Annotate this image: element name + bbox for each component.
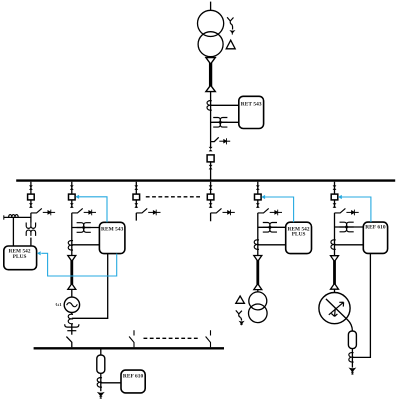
wire bbox=[71, 324, 73, 335]
disconnector F4 bbox=[211, 208, 235, 215]
voltage transformer F5 bbox=[263, 223, 277, 233]
circuit breaker F3 bbox=[133, 194, 140, 200]
earth electrode machine neutral bbox=[349, 368, 357, 375]
withdrawable contact upper (incoming breaker) bbox=[209, 147, 213, 152]
generator G1 bbox=[64, 297, 79, 312]
T2 wye winding symbol bbox=[236, 310, 242, 317]
cable termination lower (T1 feeder) bbox=[206, 85, 215, 91]
svg-text:REF 610: REF 610 bbox=[123, 374, 144, 380]
cable run T1 to switchgear bbox=[209, 63, 212, 86]
T1 delta winding symbol bbox=[226, 40, 235, 49]
wire bbox=[210, 92, 212, 142]
current transformer F2 bbox=[68, 241, 73, 251]
withdrawable contact lower F1 bbox=[29, 203, 33, 208]
current transformer F5 bbox=[254, 240, 259, 250]
circuit breaker F2 bbox=[69, 194, 76, 200]
disconnector F5 bbox=[258, 208, 282, 215]
earthing resistor feeder wire bbox=[100, 349, 102, 355]
wire CT F2 to REM 543 bbox=[72, 244, 100, 246]
T2 delta winding symbol bbox=[236, 296, 245, 303]
neutral earthing resistor lower bbox=[97, 355, 105, 373]
generator earthing device bbox=[65, 324, 79, 331]
circuit breaker F1 bbox=[28, 194, 35, 200]
wire VT F6 to REF 610 bbox=[335, 226, 364, 228]
cyan interlink REM 543 to REM 542 PLUS bbox=[37, 251, 117, 276]
cyan control REM 543 to breaker F2 bbox=[75, 195, 107, 223]
transformer T1 primary winding bbox=[198, 10, 224, 36]
cable run F6 to machine bbox=[333, 261, 336, 285]
wire VT F1 to REM 542 PLUS bbox=[30, 238, 32, 247]
wire bbox=[100, 373, 102, 391]
relay RET 543 bbox=[239, 96, 264, 128]
busbar lower bbox=[34, 347, 224, 349]
transformer T2 primary winding bbox=[249, 292, 267, 310]
cable run F2 to generator bbox=[70, 261, 73, 285]
transformer T1 secondary winding bbox=[198, 32, 223, 57]
withdrawable contact lower F3 bbox=[134, 203, 138, 208]
withdrawable contact lower (incoming breaker) bbox=[209, 165, 213, 170]
disconnector incoming (with truck arrow) bbox=[211, 137, 231, 144]
svg-text:PLUS: PLUS bbox=[13, 254, 27, 260]
withdrawable contact upper F3 bbox=[134, 185, 138, 190]
earth electrode resistor feeder bbox=[97, 392, 105, 399]
withdrawable contact upper F2 bbox=[70, 185, 74, 190]
svg-text:REM 543: REM 543 bbox=[101, 226, 124, 232]
relay REF 610 (bay F6) bbox=[363, 222, 387, 253]
relay REM 542 PLUS (bay F5) bbox=[286, 222, 312, 253]
wire bbox=[71, 313, 73, 315]
withdrawable contact upper F6 bbox=[333, 185, 337, 190]
circuit breaker F6 bbox=[331, 194, 338, 200]
cable termination upper (T1 feeder) bbox=[206, 58, 215, 64]
wire CT1 to RET 543 bbox=[211, 104, 239, 106]
bay F4 vertical wire bbox=[210, 182, 212, 221]
wire bbox=[257, 290, 259, 292]
current transformer generator bbox=[68, 314, 73, 324]
T2 neutral earthing arrow bbox=[239, 318, 245, 326]
cable termination upper F2 bbox=[68, 256, 76, 262]
wire CT F6 to REF 610 bbox=[335, 244, 364, 246]
circuit breaker F4 bbox=[207, 194, 214, 200]
relay REM 543 bbox=[99, 222, 125, 253]
voltage transformer VT1 (incoming) bbox=[213, 118, 227, 128]
voltage transformer F6 bbox=[340, 222, 354, 232]
T1 wye winding symbol bbox=[227, 17, 233, 25]
cyan control REM 542 PLUS to breaker F5 bbox=[261, 195, 293, 222]
wire branch F1 cable CT bbox=[4, 216, 31, 218]
withdrawable contact lower F2 bbox=[70, 203, 74, 208]
bay F3 vertical wire bbox=[135, 182, 137, 221]
wire bbox=[210, 142, 212, 148]
rotating machine M1 bbox=[319, 293, 350, 324]
cable termination upper F5 bbox=[254, 256, 262, 262]
wire resistor CT to REF 610 bbox=[101, 382, 121, 384]
cable termination lower F2 bbox=[68, 284, 76, 290]
voltage transformer F1 (vertical) bbox=[26, 223, 35, 236]
transformer T2 secondary winding bbox=[248, 304, 267, 323]
cable termination lower F5 bbox=[254, 284, 262, 290]
circuit breaker incoming bbox=[207, 155, 214, 162]
withdrawable contact lower F4 bbox=[209, 203, 213, 208]
disconnector F3 bbox=[136, 208, 160, 215]
busbar main bbox=[16, 179, 395, 181]
relay REM 542 PLUS (bay F1) bbox=[4, 246, 37, 270]
wire generator CT to REM 543 bbox=[72, 254, 108, 319]
branch end bar bbox=[3, 215, 5, 219]
wire incoming feeder stub bbox=[210, 2, 212, 11]
cyan control REF 610 to breaker F6 bbox=[338, 195, 371, 222]
bay F1 vertical wire bbox=[30, 182, 32, 223]
bay F6 vertical wire bbox=[334, 182, 336, 256]
bay F2 vertical wire bbox=[71, 182, 73, 256]
svg-text:PLUS: PLUS bbox=[292, 232, 306, 238]
circuit breaker F5 bbox=[254, 194, 261, 200]
withdrawable contact lower F6 bbox=[333, 203, 337, 208]
cable current transformer F1 bbox=[9, 215, 19, 218]
wire machine CT to REF 610 bbox=[352, 253, 370, 357]
wire bbox=[71, 289, 73, 297]
dashed continuation upper bbox=[146, 196, 201, 198]
disconnector F1 bbox=[31, 208, 55, 215]
cable run F5 to transformer T2 bbox=[256, 261, 259, 285]
wire cable CT to REM 542 PLUS bbox=[12, 217, 14, 246]
current transformer machine neutral bbox=[349, 353, 354, 363]
svg-text:G1: G1 bbox=[56, 303, 63, 308]
neutral earthing resistor F6 bbox=[348, 331, 356, 349]
disconnector F6 bbox=[335, 208, 359, 215]
spare disconnector stub right (lower busbar) bbox=[206, 330, 211, 347]
current transformer earthing resistor bbox=[97, 378, 102, 388]
withdrawable contact upper F4 bbox=[209, 185, 213, 190]
wire bbox=[210, 161, 212, 180]
wire VT1 to RET 543 bbox=[211, 121, 239, 123]
wire bbox=[334, 289, 336, 292]
cable termination upper F6 bbox=[331, 256, 339, 262]
current transformer F6 bbox=[331, 240, 336, 250]
voltage transformer F2 bbox=[77, 223, 91, 233]
withdrawable contact upper F1 bbox=[29, 185, 33, 190]
svg-text:RET 543: RET 543 bbox=[241, 102, 262, 108]
T1 neutral earthing arrow bbox=[229, 25, 235, 35]
disconnector F2 bbox=[72, 208, 96, 215]
dashed continuation lower bbox=[144, 337, 200, 339]
svg-text:REF 610: REF 610 bbox=[365, 225, 386, 231]
earthing switch blade F2 bbox=[66, 337, 71, 348]
wire VT F5 to REM 542 PLUS bbox=[258, 226, 286, 228]
withdrawable contact upper F5 bbox=[256, 185, 260, 190]
bay F5 vertical wire bbox=[257, 182, 259, 256]
wire VT F2 to REM 543 bbox=[72, 227, 100, 229]
spare disconnector stub left (lower busbar) bbox=[129, 330, 134, 347]
wire CT F5 to REM 542 PLUS bbox=[258, 244, 286, 246]
cable termination lower F6 bbox=[331, 283, 339, 289]
machine neutral diagonal wire bbox=[326, 299, 353, 331]
wire bbox=[351, 349, 353, 368]
relay REF 610 (earthing) bbox=[121, 370, 145, 393]
current transformer CT1 (incoming) bbox=[207, 101, 212, 111]
withdrawable contact lower F5 bbox=[256, 203, 260, 208]
